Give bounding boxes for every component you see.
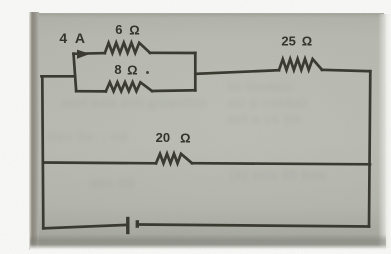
wire: top branch left segment (box) <box>74 52 105 55</box>
wire: bottom right segment <box>139 225 369 227</box>
resistor R2 8Ω zigzag <box>106 82 152 91</box>
label: stray dot after 8 Ω <box>146 71 149 74</box>
svg-text:8: 8 <box>114 62 121 77</box>
faint bleed-through text from reverse page (decorative texture) <box>228 80 295 94</box>
svg-text:Ω: Ω <box>129 23 139 38</box>
svg-text:Ω: Ω <box>302 34 312 49</box>
svg-text:25: 25 <box>281 33 295 48</box>
wire: bottom left segment <box>43 225 126 228</box>
wire: right side vertical <box>369 71 370 226</box>
svg-text:4: 4 <box>59 30 67 46</box>
svg-text:A: A <box>75 30 85 46</box>
wire: middle branch left segment <box>43 161 156 165</box>
svg-text:20: 20 <box>156 130 170 145</box>
arrow: 4 A current direction <box>77 50 90 59</box>
resistor R3 25Ω zigzag <box>279 59 322 70</box>
wire: 25Ω to top right corner <box>322 70 370 71</box>
wire: box output to 25Ω <box>195 70 279 74</box>
wire: middle branch right segment <box>192 163 370 164</box>
battery V1 short plate <box>136 220 139 228</box>
svg-text:Ω: Ω <box>180 130 190 145</box>
wire: bottom branch right segment (box) <box>152 89 195 92</box>
wire: left side vertical <box>42 76 43 228</box>
svg-text:6: 6 <box>115 22 122 37</box>
resistor R1 6Ω zigzag <box>105 43 150 53</box>
node: parallel box left bar <box>74 54 77 92</box>
node: parallel box right bar <box>194 53 197 91</box>
svg-text:Ω: Ω <box>127 62 137 77</box>
wire: left feed into parallel box <box>42 75 76 78</box>
wire: bottom branch left segment (box) <box>76 90 106 93</box>
resistor R4 20Ω zigzag <box>156 154 192 164</box>
wire: top branch right segment (box) <box>150 51 195 54</box>
battery V1 long plate <box>126 217 129 234</box>
